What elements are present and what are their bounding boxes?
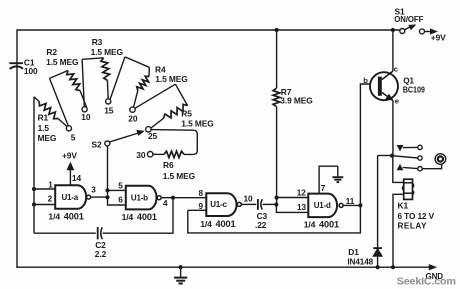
relay common terminal wire xyxy=(422,164,441,169)
svg-text:1/4: 1/4 xyxy=(122,212,134,222)
wire R7 top xyxy=(276,30,278,88)
pin 10 wire xyxy=(241,195,256,205)
svg-text:R3: R3 xyxy=(92,37,103,47)
pin 8 wire xyxy=(173,189,206,198)
svg-text:c: c xyxy=(394,65,398,74)
svg-text:1.5 MEG: 1.5 MEG xyxy=(163,171,195,181)
svg-text:S2: S2 xyxy=(91,139,101,149)
svg-text:.22: .22 xyxy=(255,220,267,230)
svg-text:5: 5 xyxy=(118,182,123,191)
svg-text:1: 1 xyxy=(48,180,53,189)
node pin2 junction xyxy=(32,202,36,206)
svg-text:25: 25 xyxy=(148,131,158,141)
pin 14 +9V arrow xyxy=(62,151,81,186)
node tap 5 xyxy=(66,126,76,143)
node S2 bus pin5 junction xyxy=(105,188,109,192)
wire relay coil top xyxy=(393,156,404,183)
arrowhead ground bus xyxy=(429,265,436,270)
svg-text:IN4148: IN4148 xyxy=(347,258,373,267)
svg-text:1.5: 1.5 xyxy=(38,123,50,133)
pin 6 wire xyxy=(108,195,126,205)
node relay junction xyxy=(390,154,394,158)
svg-text:1.5 MEG: 1.5 MEG xyxy=(155,74,187,84)
resistor R6 xyxy=(151,130,197,181)
svg-text:R2: R2 xyxy=(46,47,57,57)
pin 11 output bubble xyxy=(339,203,343,207)
node tap 10 xyxy=(81,107,91,122)
relay contact NO triangle xyxy=(397,165,402,170)
node pin13 junction xyxy=(274,202,278,206)
wire left border upper xyxy=(16,29,18,63)
svg-text:1/4: 1/4 xyxy=(200,219,212,229)
svg-text:D1: D1 xyxy=(348,247,359,257)
svg-text:R1: R1 xyxy=(38,112,49,122)
resistor R2 xyxy=(46,47,87,126)
relay contact NC triangle xyxy=(397,145,402,150)
relay contact NC wire xyxy=(403,146,418,148)
svg-text:6 TO 12 V: 6 TO 12 V xyxy=(398,212,435,221)
pin 10 output bubble xyxy=(237,202,241,206)
svg-text:100: 100 xyxy=(24,66,38,76)
svg-text:4001: 4001 xyxy=(64,212,84,222)
node U1-b output junction xyxy=(171,196,175,200)
svg-text:+9V: +9V xyxy=(431,33,446,43)
svg-text:1.5 MEG: 1.5 MEG xyxy=(91,47,123,57)
wire C2 left xyxy=(34,232,96,234)
relay common terminal bullseye xyxy=(435,154,446,165)
svg-text:8: 8 xyxy=(199,189,204,198)
wire R7 bottom xyxy=(276,107,278,205)
svg-text:5: 5 xyxy=(71,133,76,143)
ground center xyxy=(174,267,187,283)
switch S2 wiper xyxy=(91,130,143,149)
pin 3 wire xyxy=(91,185,108,197)
label U1-c 1/4 4001 xyxy=(200,219,235,229)
pin 3 output bubble xyxy=(87,195,91,199)
svg-text:4001: 4001 xyxy=(137,212,157,222)
node tap 30 xyxy=(136,150,153,160)
node collector supply junction xyxy=(391,28,395,32)
svg-text:U1-d: U1-d xyxy=(314,201,331,210)
wire relay coil bottom xyxy=(393,194,404,267)
wire top supply bus xyxy=(17,29,402,31)
relay contact NO wire xyxy=(403,167,418,168)
relay contact terminal top xyxy=(418,145,422,149)
node center ground junction xyxy=(179,265,183,269)
node pin12 junction xyxy=(275,196,279,200)
capacitor C2 xyxy=(95,227,107,259)
relay coil K1 xyxy=(402,179,413,199)
svg-text:20: 20 xyxy=(128,114,138,124)
transistor Q1 xyxy=(370,65,425,106)
svg-text:MEG: MEG xyxy=(38,133,57,143)
wire S2 to gate bus xyxy=(107,146,109,198)
svg-text:4: 4 xyxy=(163,199,168,208)
op-amp U1-a gate body xyxy=(55,185,86,209)
svg-text:+9V: +9V xyxy=(62,151,77,161)
svg-text:1/4: 1/4 xyxy=(304,220,316,230)
node D1 ground junction xyxy=(376,265,380,269)
relay contact terminal bottom xyxy=(418,167,422,171)
svg-text:7: 7 xyxy=(321,184,326,193)
resistor R3 xyxy=(82,37,123,107)
node pin1 junction xyxy=(32,187,36,191)
resistor R4 xyxy=(110,57,188,107)
svg-text:1.5 MEG: 1.5 MEG xyxy=(46,57,78,67)
diode D1 xyxy=(347,156,382,268)
svg-text:e: e xyxy=(395,96,399,105)
svg-text:4001: 4001 xyxy=(319,220,339,230)
svg-text:b: b xyxy=(363,76,368,85)
svg-text:K1: K1 xyxy=(398,201,409,211)
resistor R1 xyxy=(34,97,67,143)
svg-text:R6: R6 xyxy=(163,160,174,170)
resistor R5 xyxy=(135,84,214,128)
svg-text:13: 13 xyxy=(297,203,306,212)
label U1-d 1/4 4001 xyxy=(304,220,339,230)
svg-text:11: 11 xyxy=(346,197,355,206)
pin 11 wire xyxy=(343,197,360,206)
switch S1 xyxy=(394,7,424,34)
svg-text:6: 6 xyxy=(118,195,123,204)
svg-text:RELAY: RELAY xyxy=(398,222,428,231)
pin 4 wire xyxy=(161,198,173,208)
svg-text:BC109: BC109 xyxy=(403,85,425,95)
svg-text:10: 10 xyxy=(81,112,91,122)
op-amp U1-d gate body xyxy=(308,194,337,218)
pin 2 wire xyxy=(34,195,55,205)
pin 7 wire xyxy=(319,166,338,193)
svg-text:4001: 4001 xyxy=(216,219,236,229)
svg-text:U1-a: U1-a xyxy=(62,193,79,202)
svg-text:2: 2 xyxy=(48,195,53,204)
pin 4 output bubble xyxy=(157,196,161,200)
svg-text:12: 12 xyxy=(297,188,306,197)
svg-text:SeekIC.com: SeekIC.com xyxy=(397,276,456,287)
capacitor C1 xyxy=(9,58,38,77)
label U1-b 1/4 4001 xyxy=(122,212,157,222)
svg-text:U1-b: U1-b xyxy=(131,194,148,203)
svg-text:1.5 MEG: 1.5 MEG xyxy=(181,119,213,129)
wire Q1 collector xyxy=(392,30,394,71)
op-amp U1-b gate body xyxy=(126,186,157,210)
wire bottom ground bus xyxy=(17,266,430,268)
node tap 15 xyxy=(104,99,114,116)
wire D1 top xyxy=(378,155,392,157)
svg-text:15: 15 xyxy=(104,105,114,115)
svg-text:14: 14 xyxy=(72,173,82,183)
node S2 bus pin3 junction xyxy=(105,195,109,199)
node R7 supply junction xyxy=(275,28,279,32)
svg-text:R5: R5 xyxy=(181,109,192,119)
svg-text:R4: R4 xyxy=(155,64,166,74)
wire pin 9 feedback xyxy=(188,205,361,233)
svg-text:9: 9 xyxy=(199,202,204,211)
svg-text:10: 10 xyxy=(244,195,253,204)
svg-text:3.9 MEG: 3.9 MEG xyxy=(280,96,312,106)
relay contact terminal mid xyxy=(418,156,422,160)
wire left border lower xyxy=(16,63,18,268)
svg-text:3: 3 xyxy=(91,185,96,194)
svg-text:ON/OFF: ON/OFF xyxy=(394,15,423,24)
pin 9 wire xyxy=(188,202,207,211)
label U1-a 1/4 4001 xyxy=(48,212,83,222)
svg-text:U1-c: U1-c xyxy=(210,200,227,209)
relay contact pole xyxy=(392,156,418,158)
node pin 11 junction xyxy=(358,203,362,207)
wire Q1 emitter xyxy=(392,100,394,156)
wire C2 right xyxy=(103,198,173,234)
arrow +9V supply xyxy=(424,29,446,43)
op-amp U1-c gate body xyxy=(206,193,236,216)
wire R1 bus vertical xyxy=(33,97,35,233)
capacitor C3 xyxy=(255,199,268,230)
node tap 25 xyxy=(146,127,158,141)
pin 1 wire xyxy=(34,180,55,189)
node tap 20 xyxy=(128,107,138,124)
node coil ground junction xyxy=(391,265,395,269)
wire Q1 base xyxy=(360,76,377,206)
pin 5 wire xyxy=(108,182,126,191)
pin 13 wire xyxy=(276,203,308,213)
svg-text:1/4: 1/4 xyxy=(48,212,60,222)
ground U1-d pin 7 xyxy=(332,166,343,182)
wire C3 right xyxy=(263,203,277,205)
resistor R7 xyxy=(273,87,313,107)
pin 12 wire xyxy=(277,188,309,197)
svg-text:30: 30 xyxy=(136,150,146,160)
svg-text:2.2: 2.2 xyxy=(95,249,107,259)
